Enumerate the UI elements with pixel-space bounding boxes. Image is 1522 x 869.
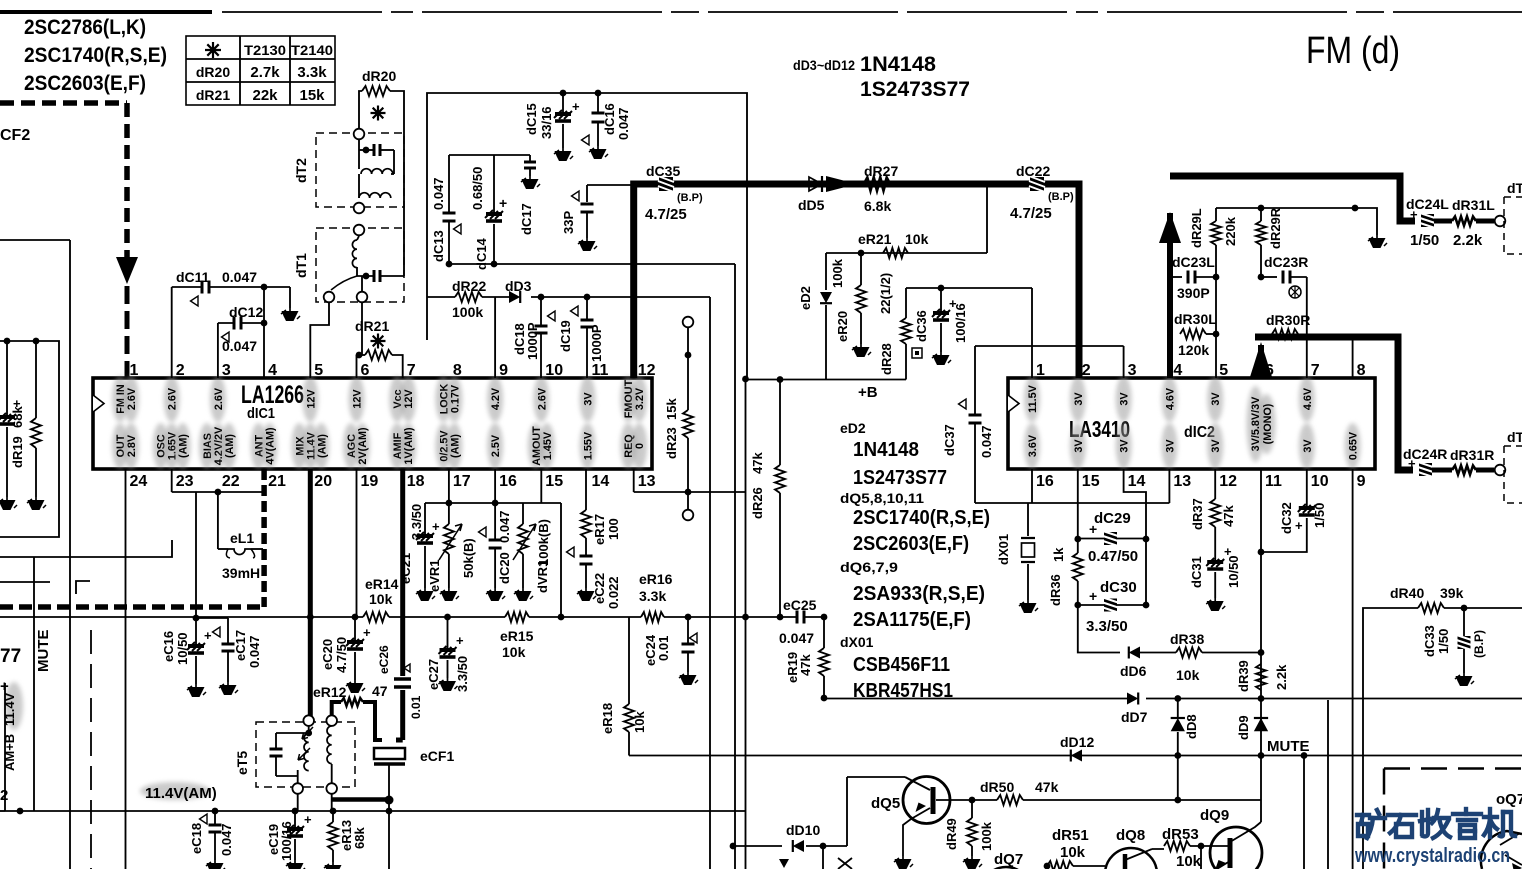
capacitor dC12 0.047 xyxy=(217,323,219,378)
capacitor eC22 0.022 xyxy=(585,538,587,556)
capacitor dC17 xyxy=(529,155,531,162)
svg-text:220k: 220k xyxy=(1223,216,1238,246)
svg-text:eC16: eC16 xyxy=(161,631,176,662)
capacitor eC16 10/50 xyxy=(195,618,197,644)
svg-text:4: 4 xyxy=(1173,362,1182,379)
transformer dT2 box xyxy=(316,133,404,207)
svg-text:2SC2603(E,F): 2SC2603(E,F) xyxy=(853,533,969,555)
svg-text:2SC2786(L,K): 2SC2786(L,K) xyxy=(24,16,146,39)
resistor dR21 with asterisk xyxy=(356,355,358,378)
svg-text:dD12: dD12 xyxy=(1060,734,1094,750)
svg-text:10k: 10k xyxy=(1176,853,1202,869)
wire dR40 row xyxy=(1363,608,1418,699)
svg-text:10k: 10k xyxy=(905,231,929,247)
svg-text:dT2: dT2 xyxy=(293,158,309,183)
svg-text:dR31L: dR31L xyxy=(1452,197,1495,213)
resistor eR17 100 xyxy=(585,469,587,510)
svg-text:3V: 3V xyxy=(1302,439,1314,453)
svg-text:www.crystalradio.cn: www.crystalradio.cn xyxy=(1354,844,1510,867)
wire dR50 row xyxy=(936,799,997,801)
svg-text:1.45V: 1.45V xyxy=(542,431,554,460)
resistor dR29R xyxy=(1260,208,1262,221)
wire dashed vertical mute xyxy=(90,630,92,869)
svg-text:eCF1: eCF1 xyxy=(420,748,454,764)
resistor dR30L 120k xyxy=(1180,329,1206,339)
svg-text:eC18: eC18 xyxy=(189,823,204,854)
svg-text:1/50: 1/50 xyxy=(1312,503,1327,528)
wire pin14 jog xyxy=(1124,469,1146,605)
svg-text:2.2k: 2.2k xyxy=(1274,664,1289,690)
svg-text:10k: 10k xyxy=(1176,667,1200,683)
svg-text:dQ9: dQ9 xyxy=(1200,807,1229,824)
wire pin4 dC11/dC12 xyxy=(261,284,268,291)
svg-text:dQ7: dQ7 xyxy=(994,851,1023,868)
svg-text:dC13: dC13 xyxy=(431,230,446,262)
svg-text:4.2V: 4.2V xyxy=(490,387,502,410)
svg-text:10k: 10k xyxy=(369,591,393,607)
svg-text:+: + xyxy=(499,195,507,211)
svg-text:3.3k: 3.3k xyxy=(639,588,666,604)
svg-text:3.3k: 3.3k xyxy=(297,64,327,81)
svg-text:33P: 33P xyxy=(561,211,576,234)
capacitor eC18 0.047 xyxy=(214,811,216,825)
svg-text:2: 2 xyxy=(0,787,8,804)
svg-text:0.047: 0.047 xyxy=(616,107,631,140)
wire 220k top rail xyxy=(1216,207,1355,209)
svg-text:22k: 22k xyxy=(252,87,278,104)
svg-text:47k: 47k xyxy=(1035,779,1059,795)
wire vertical x34 xyxy=(33,557,35,811)
svg-text:12V: 12V xyxy=(403,389,415,409)
capacitor dC35 4.7/25 xyxy=(658,176,674,192)
svg-text:MUTE: MUTE xyxy=(35,630,52,673)
svg-text:dT: dT xyxy=(1507,429,1522,445)
svg-text:4.6V: 4.6V xyxy=(1164,387,1176,410)
node bus junction xyxy=(984,181,991,188)
svg-text:dD3: dD3 xyxy=(505,278,532,294)
svg-text:2SC1740(R,S,E): 2SC1740(R,S,E) xyxy=(853,507,990,529)
svg-text:eL1: eL1 xyxy=(230,530,254,546)
svg-text:47k: 47k xyxy=(750,452,765,474)
svg-text:2SC1740(R,S,E): 2SC1740(R,S,E) xyxy=(24,44,167,67)
wire pin8 long vertical xyxy=(1352,334,1354,378)
svg-text:100/16: 100/16 xyxy=(279,821,294,861)
svg-text:dQ5: dQ5 xyxy=(871,795,900,812)
svg-text:39mH: 39mH xyxy=(222,565,260,581)
svg-text:13: 13 xyxy=(1173,473,1191,490)
svg-text:dR20: dR20 xyxy=(362,68,396,84)
svg-text:1k: 1k xyxy=(1051,547,1066,562)
wire thick bus pin12 xyxy=(634,184,1079,378)
svg-text:+: + xyxy=(572,99,580,114)
svg-text:4V(AM): 4V(AM) xyxy=(265,427,277,465)
resistor dR30R xyxy=(1272,329,1298,339)
svg-text:eD2: eD2 xyxy=(798,286,813,310)
svg-text:2.7k: 2.7k xyxy=(250,64,280,81)
wire +B rail xyxy=(746,379,907,381)
svg-text:47k: 47k xyxy=(798,654,813,676)
svg-text:0: 0 xyxy=(634,443,646,449)
text 11.4V(AM) xyxy=(140,782,210,800)
svg-text:1: 1 xyxy=(1036,362,1045,379)
svg-text:3V: 3V xyxy=(1210,392,1222,406)
svg-text:39k: 39k xyxy=(1440,585,1464,601)
svg-text:6.8k: 6.8k xyxy=(864,198,891,214)
svg-text:15: 15 xyxy=(545,473,563,490)
resistor dR29L 220k xyxy=(1215,208,1217,221)
wire pin20 thick xyxy=(308,469,313,718)
svg-text:9: 9 xyxy=(499,362,508,379)
transformer dT box right mid xyxy=(1504,445,1522,447)
svg-text:dR20: dR20 xyxy=(196,64,230,80)
svg-text:3.3/50: 3.3/50 xyxy=(409,504,424,540)
svg-text:10: 10 xyxy=(1311,473,1329,490)
svg-text:eC26: eC26 xyxy=(377,645,391,674)
wire dR36 to dD6 row xyxy=(1078,605,1120,653)
svg-text:(AM): (AM) xyxy=(449,434,461,458)
svg-text:1S2473S77: 1S2473S77 xyxy=(853,467,947,489)
transformer dT1 windings xyxy=(354,225,365,236)
capacitor dC20 0.047 xyxy=(494,503,496,540)
svg-text:eR18: eR18 xyxy=(600,703,615,734)
svg-text:100/16: 100/16 xyxy=(953,303,968,343)
svg-text:24: 24 xyxy=(130,473,148,490)
svg-text:10k: 10k xyxy=(502,644,526,660)
svg-text:dQ5,8,10,11: dQ5,8,10,11 xyxy=(840,490,924,506)
wire pin13 row xyxy=(633,469,635,492)
svg-text:0.047: 0.047 xyxy=(497,510,512,543)
svg-text:dC23R: dC23R xyxy=(1264,254,1308,270)
wire pin11 vertical xyxy=(1260,469,1262,756)
capacitor dC30 3.3/50 xyxy=(1078,604,1146,606)
svg-text:CF2: CF2 xyxy=(0,127,30,144)
capacitor dC37 0.047 xyxy=(974,346,976,415)
capacitor dC15 33/16 xyxy=(560,90,567,97)
wire dD7 row xyxy=(824,698,1127,700)
transformer dT1 box xyxy=(316,228,404,302)
svg-text:dC30: dC30 xyxy=(1100,579,1137,596)
arrow FM-in down xyxy=(116,257,138,284)
svg-text:12V: 12V xyxy=(352,389,364,409)
diode dD3 xyxy=(509,291,520,303)
svg-text:11: 11 xyxy=(1265,473,1282,490)
svg-text:eD2: eD2 xyxy=(840,420,866,436)
resistor dR36 1k xyxy=(1073,553,1083,581)
svg-text:17: 17 xyxy=(453,473,471,490)
box IF section xyxy=(427,93,747,379)
capacitor dC18 1000P xyxy=(540,297,542,326)
svg-text:+: + xyxy=(1295,518,1303,533)
svg-text:0.17V: 0.17V xyxy=(449,384,461,413)
svg-text:eR21: eR21 xyxy=(858,231,892,247)
svg-text:10/50: 10/50 xyxy=(175,632,190,665)
svg-text:3V: 3V xyxy=(1073,392,1085,406)
svg-text:33/16: 33/16 xyxy=(539,106,554,139)
resistor dR23 15k xyxy=(683,317,694,328)
svg-text:4.7/25: 4.7/25 xyxy=(645,206,687,223)
wire pin15 chain xyxy=(1077,469,1079,539)
svg-text:47: 47 xyxy=(372,683,388,699)
resistor dR20 xyxy=(359,91,362,129)
resistor dR28 22(1/2) xyxy=(905,288,907,318)
svg-text:3V: 3V xyxy=(583,392,595,406)
wire eT5 bottom leads xyxy=(297,794,299,811)
svg-text:3: 3 xyxy=(1128,362,1137,379)
text AM+B 11.4V xyxy=(5,682,23,730)
svg-text:5: 5 xyxy=(1219,362,1228,379)
svg-text:eR16: eR16 xyxy=(639,571,673,587)
svg-text:21: 21 xyxy=(268,473,286,490)
transformer eT5 windings xyxy=(303,715,314,726)
svg-text:2V(AM): 2V(AM) xyxy=(357,427,369,465)
svg-text:12: 12 xyxy=(1219,473,1237,490)
svg-text:dD7: dD7 xyxy=(1121,709,1148,725)
svg-text:13: 13 xyxy=(638,473,656,490)
svg-text:dR30R: dR30R xyxy=(1266,312,1310,328)
svg-text:2SA1175(E,F): 2SA1175(E,F) xyxy=(853,609,971,631)
svg-text:dX01: dX01 xyxy=(996,534,1011,565)
svg-text:+: + xyxy=(432,519,440,534)
svg-text:+: + xyxy=(363,625,371,640)
wire vertical x70 xyxy=(69,240,71,869)
svg-text:2.6V: 2.6V xyxy=(213,387,225,410)
svg-text:15k: 15k xyxy=(299,87,325,104)
svg-text:3.3/50: 3.3/50 xyxy=(455,656,470,692)
svg-text:1N4148: 1N4148 xyxy=(860,53,936,76)
svg-text:100k: 100k xyxy=(979,821,994,851)
svg-text:2.5V: 2.5V xyxy=(490,434,502,457)
svg-text:15k: 15k xyxy=(664,398,679,420)
capacitor left (hatched) xyxy=(6,341,8,415)
wire x1327 vertical xyxy=(1327,700,1329,869)
svg-text:dR28: dR28 xyxy=(879,343,894,375)
svg-text:FM (d): FM (d) xyxy=(1306,30,1400,72)
svg-text:68k: 68k xyxy=(352,827,367,849)
capacitor eC20 4.7/50 xyxy=(354,617,356,640)
svg-text:dX01: dX01 xyxy=(840,634,874,650)
svg-text:dR37: dR37 xyxy=(1190,498,1205,530)
capacitor dC19 1000P xyxy=(586,297,588,320)
svg-text:eR20: eR20 xyxy=(835,311,850,342)
svg-text:8: 8 xyxy=(1357,362,1366,379)
wire MUTE row xyxy=(629,755,1522,757)
svg-text:dR39: dR39 xyxy=(1236,660,1251,692)
svg-text:eR15: eR15 xyxy=(500,628,534,644)
capacitor dC22 4.7/25 xyxy=(1029,176,1045,192)
svg-text:1000P: 1000P xyxy=(525,322,540,360)
svg-text:eC25: eC25 xyxy=(783,597,817,613)
resistor dR38 10k xyxy=(1176,648,1202,658)
capacitor dC16 0.047 xyxy=(595,90,602,97)
svg-text:dD3~dD12: dD3~dD12 xyxy=(793,57,855,73)
svg-text:0.47/50: 0.47/50 xyxy=(1088,548,1138,565)
svg-text:dR29L: dR29L xyxy=(1189,208,1204,248)
transformer eT5 box xyxy=(256,722,355,787)
svg-text:3V: 3V xyxy=(1210,439,1222,453)
svg-text:eT5: eT5 xyxy=(234,751,250,775)
svg-text:390P: 390P xyxy=(1177,285,1210,301)
svg-text:dR31R: dR31R xyxy=(1450,447,1494,463)
svg-text:+B: +B xyxy=(858,384,878,401)
svg-text:+: + xyxy=(0,678,9,695)
svg-text:dC19: dC19 xyxy=(558,320,573,352)
svg-text:+: + xyxy=(304,812,312,827)
svg-text:dD5: dD5 xyxy=(798,197,825,213)
svg-text:dR26: dR26 xyxy=(750,487,765,519)
resistor eR16 3.3k xyxy=(641,612,664,622)
svg-text:3V: 3V xyxy=(1164,439,1176,453)
svg-text:dQ8: dQ8 xyxy=(1116,827,1145,844)
svg-text:T2130: T2130 xyxy=(244,42,286,58)
svg-text:9: 9 xyxy=(1357,473,1366,490)
svg-text:dC35: dC35 xyxy=(646,163,680,179)
wire pin21 thick dashed xyxy=(261,469,267,607)
svg-text:4.7/25: 4.7/25 xyxy=(1010,205,1052,222)
capacitor eC25 0.047 xyxy=(797,611,804,624)
op-amp U2 LA3410 body xyxy=(1008,378,1375,469)
svg-text:0.01: 0.01 xyxy=(656,636,671,661)
diode dD5 xyxy=(809,177,822,191)
svg-text:CSB456F11: CSB456F11 xyxy=(853,654,950,676)
inductor eL1 39mH xyxy=(217,492,219,549)
resistor eR19 47k xyxy=(823,617,825,648)
svg-text:14: 14 xyxy=(1128,473,1146,490)
svg-text:dR38: dR38 xyxy=(1170,631,1204,647)
resistor dR19 68k xyxy=(35,341,37,418)
svg-text:6: 6 xyxy=(361,362,370,379)
pin labels LA1266 top xyxy=(112,376,128,422)
wire dT1 to dR21 xyxy=(361,303,363,355)
svg-text:3V: 3V xyxy=(1119,439,1131,453)
svg-text:2.8V: 2.8V xyxy=(126,434,138,457)
wire pin24 down xyxy=(125,469,127,869)
border dashed line top xyxy=(0,10,212,14)
svg-text:dR50: dR50 xyxy=(980,779,1014,795)
box left input xyxy=(0,341,59,537)
svg-text:dT1: dT1 xyxy=(293,253,309,278)
svg-text:100k: 100k xyxy=(452,304,483,320)
capacitor dC31 10/50 xyxy=(1206,558,1224,569)
diode dD10 xyxy=(793,840,804,852)
svg-text:eC21: eC21 xyxy=(398,553,413,584)
resistor eR21 10k xyxy=(883,248,908,258)
svg-text:0.68/50: 0.68/50 xyxy=(470,167,485,210)
diode dD9 xyxy=(1254,718,1268,731)
svg-text:dC24R: dC24R xyxy=(1403,446,1447,462)
svg-text:dR51: dR51 xyxy=(1052,827,1089,844)
svg-text:11: 11 xyxy=(592,362,609,379)
svg-text:2SC2603(E,F): 2SC2603(E,F) xyxy=(24,72,146,95)
svg-text:oQ7: oQ7 xyxy=(1496,791,1522,808)
svg-text:1S2473S77: 1S2473S77 xyxy=(860,78,970,101)
capacitor dC32 1/50 xyxy=(1306,469,1308,506)
capacitor 33P xyxy=(587,184,631,186)
wire dT1 to pin5 xyxy=(310,303,329,378)
svg-text:47k: 47k xyxy=(1221,505,1236,527)
svg-text:0.65V: 0.65V xyxy=(1348,431,1360,460)
pot eVR1 50k(B) xyxy=(448,503,450,524)
resistor dR49 100k xyxy=(971,800,973,818)
svg-text:dC11: dC11 xyxy=(176,269,210,285)
svg-text:3V: 3V xyxy=(1119,392,1131,406)
svg-text:10k: 10k xyxy=(1060,844,1086,861)
svg-text:+: + xyxy=(456,633,464,648)
wire pot row y503 xyxy=(425,502,561,504)
wire thick mono bus xyxy=(1255,337,1413,470)
svg-text:dC32: dC32 xyxy=(1279,502,1294,534)
svg-text:1N4148: 1N4148 xyxy=(853,439,919,461)
svg-text:eC22: eC22 xyxy=(592,573,607,604)
capacitor dC13 0.047 xyxy=(448,155,450,213)
svg-text:23: 23 xyxy=(176,473,194,490)
svg-text:14: 14 xyxy=(592,473,610,490)
resistor eR15 10k xyxy=(505,612,529,622)
capacitor dC23R xyxy=(1258,274,1265,281)
wire pin18 thick eC26 xyxy=(400,469,405,676)
svg-text:0.047: 0.047 xyxy=(979,425,994,458)
svg-text:MUTE: MUTE xyxy=(1267,738,1310,755)
wire pin19 down xyxy=(356,469,358,617)
filter eCF1 xyxy=(374,748,405,759)
crystal dX01 xyxy=(1027,503,1029,536)
wire dD10 row xyxy=(733,845,782,847)
wire dC37 to pin3 xyxy=(975,345,1124,347)
svg-text:dR29R: dR29R xyxy=(1268,207,1283,249)
wire vertical x745 xyxy=(745,379,747,869)
terminal plus left xyxy=(4,683,6,811)
node joints xyxy=(446,261,453,268)
svg-text:eR12: eR12 xyxy=(313,684,347,700)
capacitor eC24 0.01 xyxy=(687,617,689,644)
wire x1305 vertical xyxy=(1303,756,1305,869)
svg-text:dC29: dC29 xyxy=(1094,510,1131,527)
svg-text:3.3/50: 3.3/50 xyxy=(1086,618,1128,635)
svg-text:2: 2 xyxy=(1082,362,1091,379)
svg-text:3.6V: 3.6V xyxy=(1027,434,1039,457)
svg-text:dC15: dC15 xyxy=(524,103,539,135)
svg-text:3V/5.8V/3V: 3V/5.8V/3V xyxy=(1250,396,1262,451)
svg-text:dIC1: dIC1 xyxy=(247,405,275,422)
svg-text:dR19: dR19 xyxy=(10,436,25,468)
svg-text:12V: 12V xyxy=(305,389,317,409)
svg-text:16: 16 xyxy=(1036,473,1054,490)
svg-text:20: 20 xyxy=(314,473,332,490)
svg-text:3.2V: 3.2V xyxy=(634,387,646,410)
svg-text:2.2k: 2.2k xyxy=(1453,232,1483,249)
svg-text:eC20: eC20 xyxy=(320,639,335,670)
diode dD6 xyxy=(1129,647,1140,659)
svg-text:dC16: dC16 xyxy=(602,103,617,135)
svg-text:0.047: 0.047 xyxy=(247,635,262,668)
svg-text:22(1/2): 22(1/2) xyxy=(878,273,893,314)
svg-text:dR21: dR21 xyxy=(196,87,230,103)
op-amp U1 LA1266 body xyxy=(93,378,652,469)
svg-text:5: 5 xyxy=(314,362,323,379)
diode dD12 xyxy=(1071,750,1082,762)
diode dD8 xyxy=(1177,699,1179,719)
svg-text:dD8: dD8 xyxy=(1184,714,1199,739)
resistor eR14 10k xyxy=(363,612,389,622)
svg-text:eR17: eR17 xyxy=(592,514,607,545)
capacitor dC23L 390P xyxy=(1170,276,1182,278)
svg-text:4.6V: 4.6V xyxy=(1302,387,1314,410)
svg-text:dC23L: dC23L xyxy=(1172,254,1215,270)
pin labels LA1266 bottom xyxy=(112,423,128,469)
svg-text:50k(B): 50k(B) xyxy=(461,538,476,578)
svg-text:+: + xyxy=(204,628,212,643)
resistor dR40 39k xyxy=(1418,603,1444,613)
svg-text:16: 16 xyxy=(499,473,517,490)
